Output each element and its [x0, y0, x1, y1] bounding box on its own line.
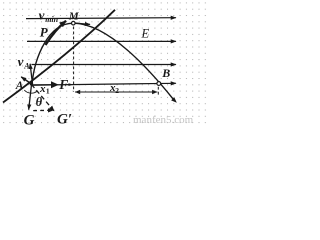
- dashed vertical below M: [73, 27, 75, 93]
- trajectory parabola A-M-B: [32, 23, 174, 99]
- svg-text:F: F: [58, 77, 68, 92]
- x2 measurement: [75, 91, 157, 93]
- dashed closing side G to G': [33, 109, 53, 111]
- svg-text:A: A: [15, 80, 24, 92]
- B circle: [157, 82, 161, 86]
- F arrow: [32, 84, 54, 86]
- trajectory end arrowhead: [171, 97, 177, 103]
- G arrow: [29, 85, 32, 110]
- svg-text:v: v: [39, 8, 45, 23]
- v_A arrow: [30, 64, 32, 84]
- svg-text:min: min: [45, 15, 58, 24]
- theta arc: [24, 90, 37, 93]
- field line E4 through B: [32, 83, 176, 85]
- svg-text:P: P: [40, 24, 49, 39]
- A hub bundle: [30, 82, 33, 85]
- svg-text:2: 2: [115, 86, 119, 95]
- dashed vertical below B: [157, 87, 159, 96]
- M circle: [72, 21, 76, 25]
- svg-text:1: 1: [46, 87, 50, 96]
- field line E3: [32, 64, 176, 66]
- svg-text:manfen5.com: manfen5.com: [133, 114, 194, 126]
- svg-text:G′: G′: [57, 111, 72, 127]
- small arrow up-left of A: [21, 77, 31, 84]
- svg-text:E: E: [141, 26, 150, 40]
- velocity arrow at P: [46, 21, 67, 45]
- effective-horizon diagonal line through A: [3, 10, 115, 103]
- x1 right arrowhead: [69, 83, 74, 86]
- svg-text:G: G: [24, 113, 35, 128]
- field line E2: [27, 40, 176, 42]
- svg-text:B: B: [161, 66, 170, 80]
- background dots: [2, 0, 208, 127]
- svg-text:M: M: [68, 11, 80, 23]
- v_min arrow at M: [76, 23, 91, 24]
- G' dashed resultant arrow: [32, 85, 55, 111]
- svg-text:v: v: [18, 54, 24, 69]
- svg-text:A: A: [23, 62, 30, 71]
- field line E1: [26, 17, 176, 20]
